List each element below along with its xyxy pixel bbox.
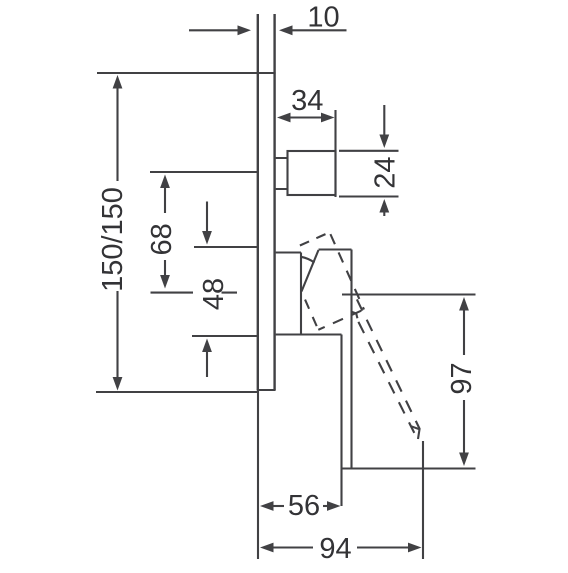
dimension 24 bottom line [339, 195, 399, 197]
handle rotation arc [301, 257, 315, 263]
wall plate bottom cap [257, 389, 276, 391]
svg-text:10: 10 [307, 2, 339, 34]
dashed handle rotated up: right edge [330, 232, 364, 309]
svg-text:94: 94 [319, 533, 351, 565]
spout extension line [334, 110, 336, 197]
bottom reference line [96, 392, 258, 559]
dashed lever down: right edge [357, 299, 420, 429]
svg-text:97: 97 [446, 362, 478, 394]
handle right edge [350, 250, 352, 469]
valve bottom reference line [192, 335, 257, 337]
dimension 24 top arrow [383, 105, 385, 135]
svg-text:48: 48 [198, 278, 230, 310]
dimension 94 right arrow [357, 546, 409, 548]
escutcheon front line [300, 253, 302, 335]
valve top reference line [194, 246, 257, 248]
dimension 56 right arrow [323, 505, 328, 507]
valve centre reference line [151, 292, 238, 294]
dimension 94 left arrow [272, 546, 313, 548]
spout centre reference line [150, 171, 257, 173]
dimension 10 right leader with arrow [292, 29, 347, 31]
dimension 68 bottom arrow [164, 260, 166, 276]
dashed lever down: left edge [358, 322, 414, 433]
dimension 24 bottom arrow [383, 213, 385, 217]
97 bottom reference line [342, 467, 476, 469]
dimension 48 bottom arrow [206, 352, 208, 377]
svg-text:150/150: 150/150 [97, 187, 129, 292]
dimension 150/150 bottom arrow [116, 291, 118, 378]
dimension 97 top arrow [463, 309, 465, 355]
lever tip extension line [422, 441, 424, 559]
dashed handle rotated up: lower-left edge [302, 292, 319, 330]
escutcheon and handle bottom line [276, 333, 342, 335]
dimension 97 bottom arrow [463, 400, 465, 453]
svg-text:56: 56 [288, 490, 320, 522]
spout body [288, 151, 336, 195]
handle left slant edge [302, 250, 319, 292]
svg-text:34: 34 [291, 85, 323, 117]
wall plate right line [273, 14, 275, 390]
dashed lever down: tip cap [411, 426, 419, 439]
dimension 150/150 top arrow [116, 86, 118, 181]
top reference line [97, 72, 276, 74]
dimension 24 top line [339, 150, 399, 152]
dimension 34 line with outward arrows [289, 116, 322, 118]
dashed handle rotated up: top edge [300, 232, 330, 245]
handle hub extension line down [340, 335, 342, 507]
97 top reference line [342, 293, 476, 295]
wall plate left line [257, 14, 259, 390]
svg-text:68: 68 [146, 223, 178, 255]
dimension 48 top arrow [206, 202, 208, 233]
dashed handle rotated up: bottom edge [318, 310, 364, 330]
dimension 10 left leader with arrow [189, 29, 238, 31]
dashed lever down: pivot jog [352, 312, 358, 318]
escutcheon top line [276, 251, 301, 253]
spout base tab [276, 158, 288, 189]
dimension 68 top arrow [164, 187, 166, 213]
dimension 56 left arrow [272, 505, 284, 507]
svg-text:24: 24 [370, 156, 402, 188]
handle top edge [319, 248, 352, 250]
